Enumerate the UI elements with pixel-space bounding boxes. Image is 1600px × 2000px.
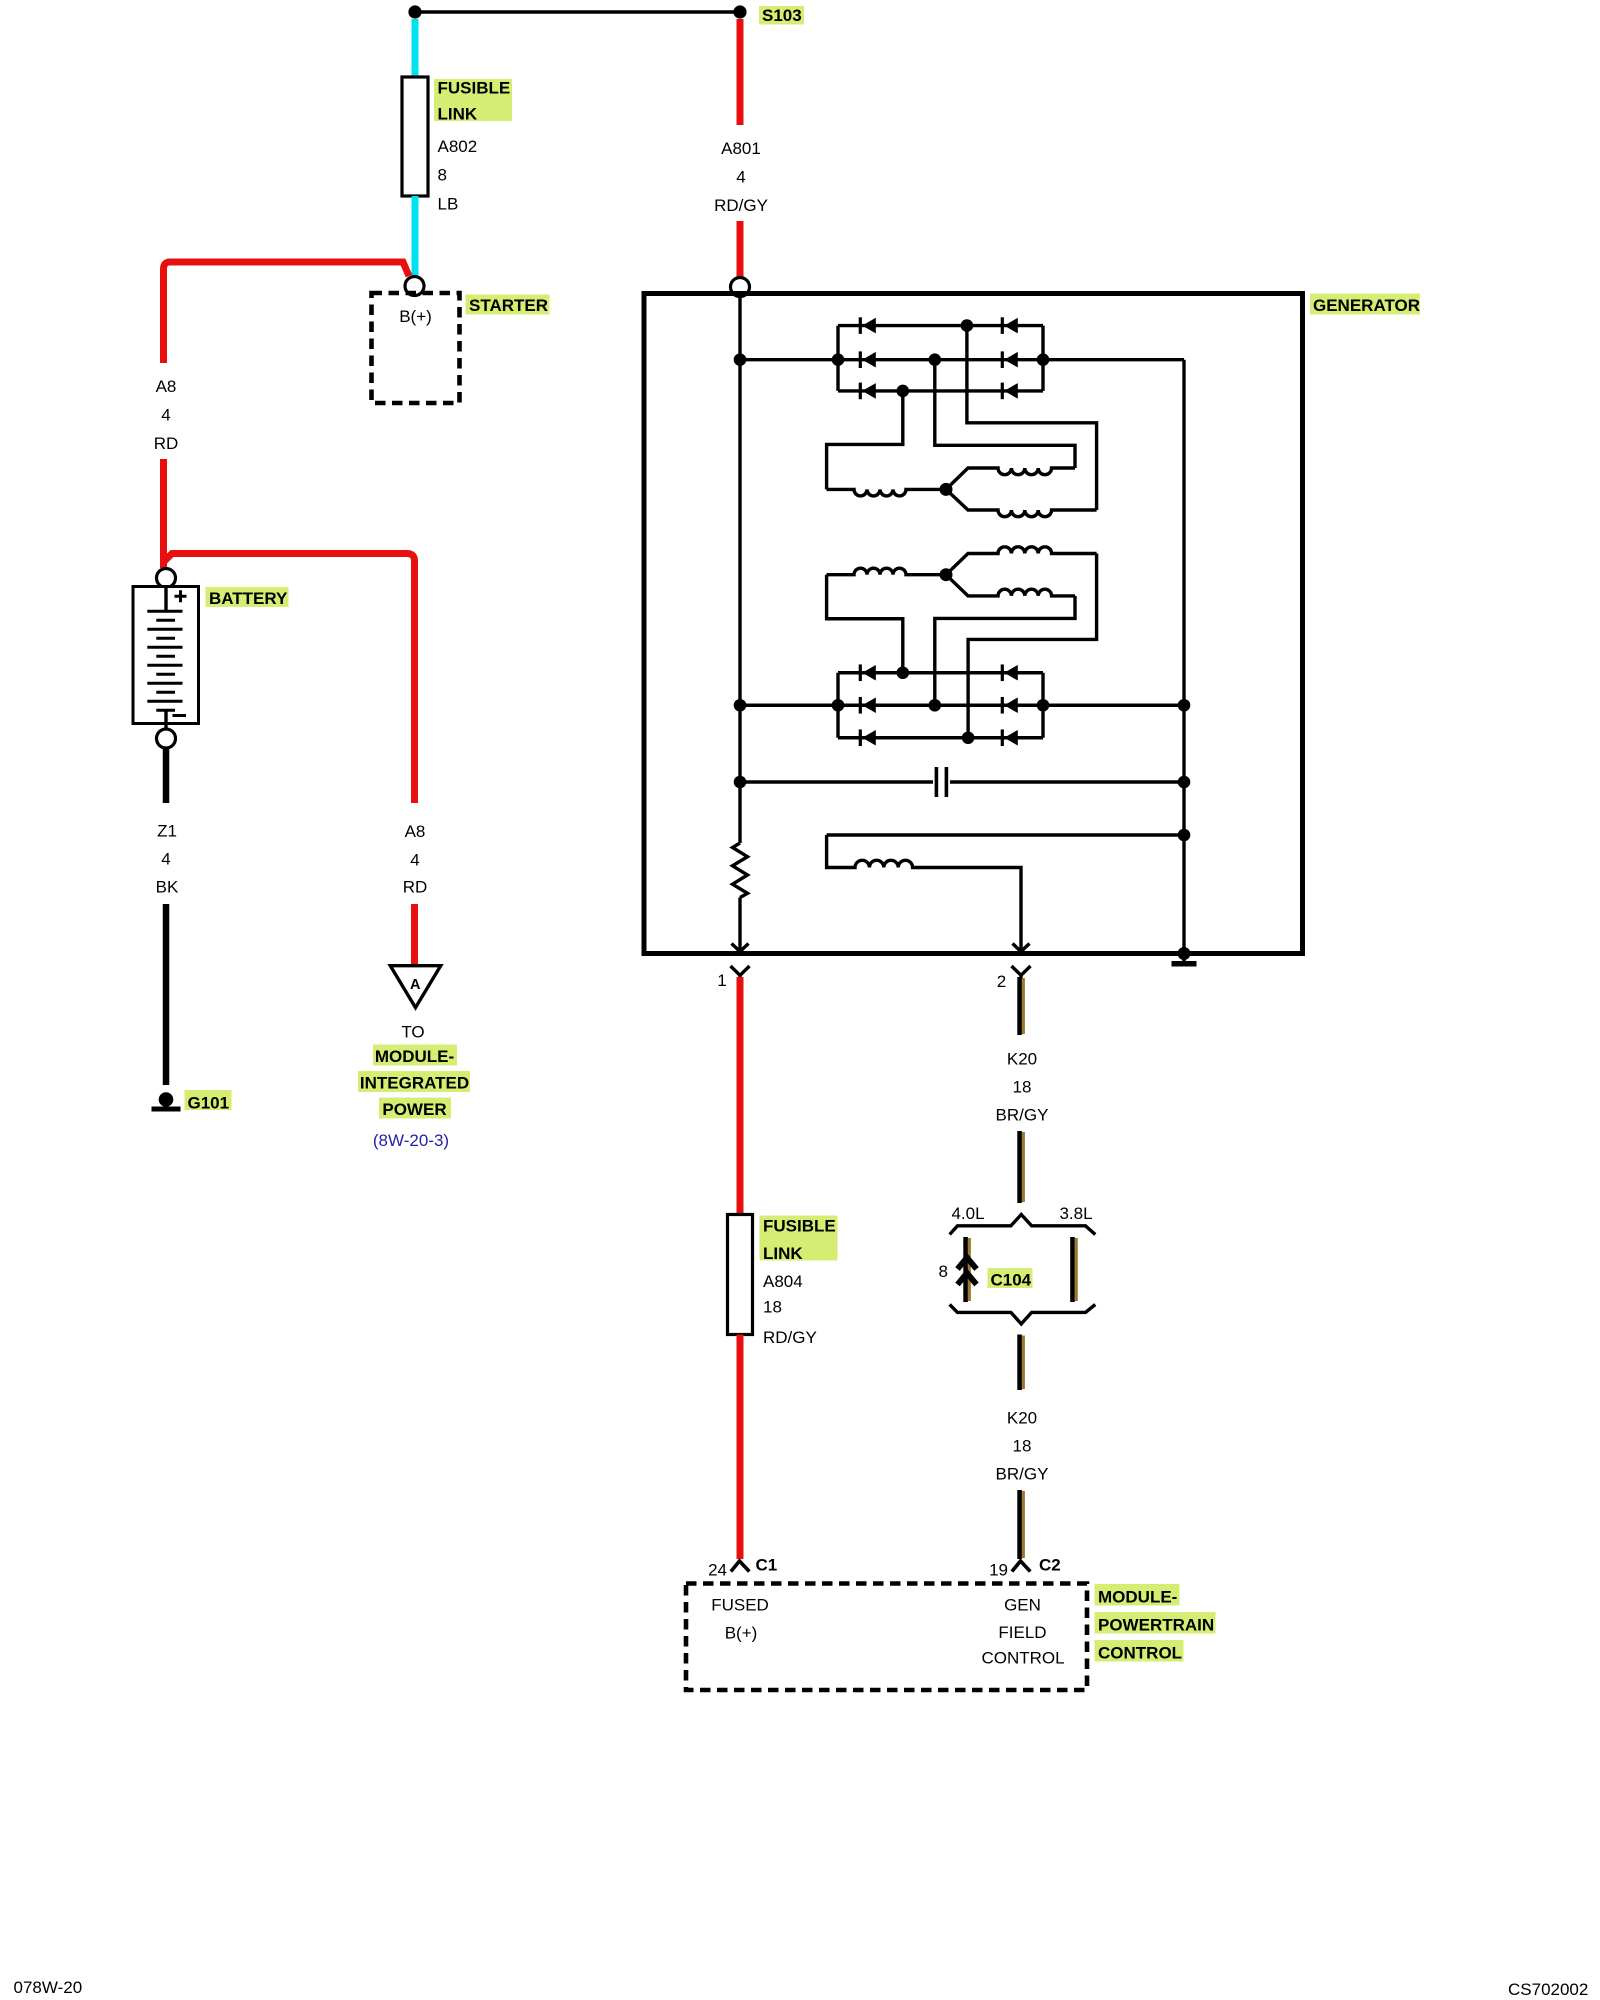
battery box xyxy=(133,587,199,724)
junction dot lower row3 mid xyxy=(962,731,975,744)
wire upper bridge left rail xyxy=(836,326,839,391)
wire A804 RD/GY lower xyxy=(737,1335,744,1560)
wire right bus vertical xyxy=(1182,360,1185,954)
diode lower row2 right xyxy=(1001,697,1018,714)
svg-text:K20: K20 xyxy=(1007,1050,1037,1069)
stator winding upper-left coil xyxy=(827,489,946,496)
svg-text:RD/GY: RD/GY xyxy=(714,196,768,215)
svg-text:CONTROL: CONTROL xyxy=(981,1649,1064,1668)
diode upper row2 left xyxy=(859,351,876,368)
label GENERATOR xyxy=(1310,294,1420,315)
pin 2 socket Y xyxy=(1012,966,1031,979)
svg-text:2: 2 xyxy=(997,972,1006,991)
terminal circle battery + xyxy=(157,569,176,588)
svg-text:18: 18 xyxy=(1013,1078,1032,1097)
battery top stem xyxy=(164,587,167,611)
svg-text:18: 18 xyxy=(763,1298,782,1317)
svg-text:G101: G101 xyxy=(188,1094,230,1113)
wire lower phase lead 1 xyxy=(827,575,903,673)
junction dot upper rail-left/row2 xyxy=(832,353,845,366)
wire main B+ vertical xyxy=(738,296,741,843)
junction dot upper wye center xyxy=(940,483,953,496)
svg-text:24: 24 xyxy=(708,1561,727,1580)
generator box xyxy=(644,294,1303,954)
wire A8 RD starter-to-battery upper run xyxy=(164,262,410,363)
svg-text:MODULE-: MODULE- xyxy=(375,1047,454,1066)
field winding rotor coil xyxy=(827,835,1021,950)
wire Z1 BK lower xyxy=(163,904,170,1085)
svg-text:A8: A8 xyxy=(156,377,177,396)
wire below resistor xyxy=(738,898,741,951)
svg-text:4: 4 xyxy=(736,168,745,187)
svg-text:C1: C1 xyxy=(756,1556,778,1575)
junction dot lower row1 mid xyxy=(897,666,910,679)
connector C104 merge brace lower xyxy=(950,1305,1096,1324)
pin 1 socket Y xyxy=(731,966,750,979)
diode lower row1 left xyxy=(859,664,876,681)
diode upper row1 left xyxy=(859,317,876,334)
junction dot upper row3 mid xyxy=(897,385,910,398)
field winding top lead xyxy=(827,833,1184,836)
svg-text:B(+): B(+) xyxy=(725,1624,758,1643)
svg-text:CS702002: CS702002 xyxy=(1508,1980,1588,1999)
wire Z1 BK upper xyxy=(163,748,170,803)
wire A8 RD lower segment into battery xyxy=(160,459,167,568)
svg-text:A804: A804 xyxy=(763,1272,803,1291)
diode lower row2 left xyxy=(859,697,876,714)
svg-text:A: A xyxy=(410,977,421,993)
capacitor C (noise suppressor) xyxy=(740,780,933,783)
diode upper row2 right xyxy=(1001,351,1018,368)
label FUSIBLE LINK (A804) xyxy=(760,1216,838,1261)
wire upper rectifier output row xyxy=(740,358,1184,361)
terminal circle battery - xyxy=(157,729,176,748)
wire upper bridge row3 xyxy=(838,389,1043,392)
svg-text:BATTERY: BATTERY xyxy=(209,589,288,608)
wire A801 RD/GY upper xyxy=(737,19,744,125)
wire upper bridge row1 xyxy=(838,324,1043,327)
svg-text:INTEGRATED: INTEGRATED xyxy=(360,1074,469,1093)
stator winding lower-left coil xyxy=(827,568,946,575)
svg-text:A8: A8 xyxy=(405,822,426,841)
svg-text:K20: K20 xyxy=(1007,1409,1037,1428)
resistor (voltage regulator) xyxy=(733,843,748,898)
diode upper row3 right xyxy=(1001,383,1018,400)
off-page connector A triangle xyxy=(390,966,440,1008)
wire K20 BR/GY segment 1 xyxy=(1020,977,1024,1035)
terminal circle generator B+ xyxy=(731,278,750,297)
connector arrows C104 xyxy=(958,1258,977,1270)
wire upper phase lead 3 xyxy=(967,326,1097,510)
junction dot right bus/field xyxy=(1178,829,1191,842)
wire K20 BR/GY segment 2 xyxy=(1020,1131,1024,1203)
connector C104 split brace upper xyxy=(950,1215,1096,1235)
svg-text:LINK: LINK xyxy=(438,105,478,124)
wire lower bridge row3 xyxy=(838,736,1043,739)
pin 2 arrow into case xyxy=(1013,944,1030,952)
svg-text:RD: RD xyxy=(154,434,179,453)
battery + sign xyxy=(175,590,187,602)
svg-text:POWER: POWER xyxy=(382,1100,446,1119)
svg-text:A802: A802 xyxy=(438,137,478,156)
junction dot main/row2 xyxy=(734,353,747,366)
battery - sign xyxy=(173,714,187,717)
pin 1 arrow into case xyxy=(732,944,749,952)
wire A8 RD segment into off-page connector xyxy=(411,904,418,967)
junction dot lower rail-right/row2 xyxy=(1037,699,1050,712)
wire lower phase lead 2 xyxy=(935,596,1075,705)
wire LB cyan lower segment xyxy=(412,196,419,279)
stator winding upper-topright coil xyxy=(946,468,1075,489)
junction dot main/capacitor xyxy=(734,776,747,789)
fusible link A804 body xyxy=(728,1215,753,1335)
svg-text:19: 19 xyxy=(989,1561,1008,1580)
svg-text:RD/GY: RD/GY xyxy=(763,1328,817,1347)
wire lower phase lead 3 xyxy=(968,554,1097,738)
battery plates xyxy=(147,611,182,710)
svg-text:STARTER: STARTER xyxy=(469,296,548,315)
svg-text:(8W-20-3): (8W-20-3) xyxy=(373,1131,449,1150)
junction dot right bus/capacitor xyxy=(1178,776,1191,789)
diode upper row3 left xyxy=(859,383,876,400)
svg-text:A801: A801 xyxy=(721,139,761,158)
wire upper phase lead 1 xyxy=(827,391,903,490)
ground G101 xyxy=(159,1092,174,1107)
fusible link A802 body xyxy=(402,77,428,196)
module-powertrain control dashed box xyxy=(686,1584,1087,1691)
wire K20 BR/GY segment 4 xyxy=(1020,1490,1024,1559)
svg-text:CONTROL: CONTROL xyxy=(1098,1644,1182,1663)
svg-text:LINK: LINK xyxy=(763,1244,803,1263)
svg-text:4.0L: 4.0L xyxy=(951,1204,984,1223)
label BATTERY xyxy=(206,587,289,607)
wire A801 RD/GY lower xyxy=(737,221,744,277)
stator winding upper-bottomright coil xyxy=(946,489,1097,516)
svg-text:RD: RD xyxy=(403,878,428,897)
svg-text:FUSIBLE: FUSIBLE xyxy=(763,1217,836,1236)
svg-text:4: 4 xyxy=(161,406,170,425)
wire K20 BR/GY segment 3 xyxy=(1020,1335,1024,1391)
svg-text:BK: BK xyxy=(156,878,179,897)
label G101 xyxy=(185,1090,232,1110)
wire LB cyan upper segment xyxy=(412,19,419,79)
svg-text:3.8L: 3.8L xyxy=(1059,1204,1092,1223)
wire upper phase lead 2 xyxy=(935,360,1075,468)
svg-text:FIELD: FIELD xyxy=(998,1623,1046,1642)
svg-text:BR/GY: BR/GY xyxy=(996,1106,1049,1125)
svg-text:S103: S103 xyxy=(762,6,802,25)
svg-text:LB: LB xyxy=(438,195,459,214)
wire lower bridge left rail xyxy=(836,673,839,738)
label MODULE-POWERTRAIN CONTROL xyxy=(1095,1584,1180,1606)
stator winding lower-bottomright coil xyxy=(946,575,1075,596)
junction dot lower rail-left/row2 xyxy=(832,699,845,712)
svg-text:GENERATOR: GENERATOR xyxy=(1313,296,1420,315)
junction dot upper rail-right/row2 xyxy=(1037,353,1050,366)
svg-text:C2: C2 xyxy=(1039,1556,1061,1575)
svg-text:TO: TO xyxy=(401,1023,424,1042)
ground (generator case) xyxy=(1178,947,1191,960)
wire C104 right branch xyxy=(1073,1237,1077,1302)
connector pin C1 xyxy=(731,1561,749,1572)
connector pin C2 xyxy=(1012,1561,1030,1572)
node dot S103 xyxy=(733,5,746,18)
label STARTER xyxy=(466,295,550,315)
wire lower bridge row2 xyxy=(740,704,1184,707)
svg-text:4: 4 xyxy=(161,850,170,869)
node dot left of S103 wire xyxy=(408,5,421,18)
wire upper bridge right rail xyxy=(1041,326,1044,391)
terminal circle B(+) xyxy=(405,277,424,296)
wire lower bridge row1 xyxy=(838,671,1043,674)
diode lower row1 right xyxy=(1001,664,1018,681)
junction dot upper row1 mid xyxy=(961,319,974,332)
label S103 xyxy=(759,6,804,25)
svg-text:FUSED: FUSED xyxy=(711,1596,769,1615)
diode lower row3 right xyxy=(1001,729,1018,746)
junction dot main/lower row2 xyxy=(734,699,747,712)
junction dot lower row2 mid xyxy=(929,699,942,712)
svg-text:BR/GY: BR/GY xyxy=(996,1465,1049,1484)
svg-text:4: 4 xyxy=(410,851,419,870)
wire A8 RD branch to power module xyxy=(164,554,415,804)
label MODULE-INTEGRATED POWER xyxy=(373,1045,457,1066)
junction dot upper row2 mid xyxy=(929,353,942,366)
starter dashed box xyxy=(372,293,460,403)
svg-text:GEN: GEN xyxy=(1004,1596,1041,1615)
svg-text:MODULE-: MODULE- xyxy=(1098,1588,1177,1607)
svg-text:1: 1 xyxy=(717,971,726,990)
wire S103 horizontal xyxy=(415,10,740,13)
diode upper row1 right xyxy=(1001,317,1018,334)
label C104 xyxy=(988,1268,1033,1288)
svg-text:Z1: Z1 xyxy=(157,822,177,841)
svg-text:8: 8 xyxy=(939,1262,948,1281)
label FUSIBLE LINK (A802) xyxy=(434,79,512,121)
wire lower bridge right rail xyxy=(1041,673,1044,738)
svg-text:C104: C104 xyxy=(991,1271,1032,1290)
svg-text:078W-20: 078W-20 xyxy=(14,1978,83,1997)
battery bottom stem xyxy=(164,710,167,729)
wire C104 left branch xyxy=(966,1237,970,1302)
junction dot lower wye center xyxy=(940,568,953,581)
svg-text:8: 8 xyxy=(438,166,447,185)
stator winding lower-topright coil xyxy=(946,547,1097,575)
svg-text:FUSIBLE: FUSIBLE xyxy=(438,79,511,98)
svg-text:18: 18 xyxy=(1013,1437,1032,1456)
diode lower row3 left xyxy=(859,729,876,746)
junction dot right bus/row2 xyxy=(1178,699,1191,712)
svg-text:POWERTRAIN: POWERTRAIN xyxy=(1098,1616,1214,1635)
wire A804 RD/GY upper xyxy=(737,977,744,1213)
svg-text:B(+): B(+) xyxy=(399,307,432,326)
